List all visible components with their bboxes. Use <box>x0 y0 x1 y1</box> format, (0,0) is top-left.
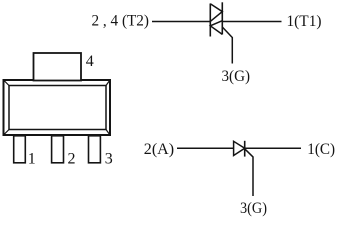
bevel diagonal top-right <box>106 80 110 86</box>
wire anode lead <box>177 147 234 149</box>
package body inner outline <box>9 86 106 130</box>
svg-text:1: 1 <box>28 151 36 168</box>
bevel diagonal bottom-right <box>106 130 110 136</box>
wire T2 lead <box>152 21 210 23</box>
lead pin 1 <box>14 136 26 163</box>
wire triac gate <box>222 27 232 64</box>
scr triangle <box>234 141 245 155</box>
tab pin 4 <box>34 53 82 81</box>
lead pin 2 <box>52 136 64 163</box>
wire cathode lead <box>245 147 301 149</box>
wire scr gate <box>245 149 253 196</box>
svg-text:2(A): 2(A) <box>144 141 174 158</box>
svg-text:4: 4 <box>86 53 94 70</box>
svg-text:2 , 4 (T2): 2 , 4 (T2) <box>92 13 150 30</box>
svg-text:1(T1): 1(T1) <box>287 13 322 30</box>
package body outer outline <box>4 80 111 135</box>
triac lower triangle <box>210 21 222 35</box>
svg-text:3(G): 3(G) <box>240 200 267 217</box>
svg-text:3: 3 <box>105 151 113 168</box>
lead pin 3 <box>89 136 101 163</box>
wire T1 lead <box>222 21 281 23</box>
svg-text:2: 2 <box>68 151 76 168</box>
svg-text:3(G): 3(G) <box>222 68 251 85</box>
scr cathode bar <box>244 141 246 157</box>
bevel diagonal bottom-left <box>4 130 10 136</box>
triac left bar <box>209 4 211 37</box>
triac right bar <box>221 2 223 34</box>
triac upper triangle <box>210 4 222 22</box>
svg-text:1(C): 1(C) <box>307 141 335 158</box>
bevel diagonal top-left <box>4 80 10 86</box>
